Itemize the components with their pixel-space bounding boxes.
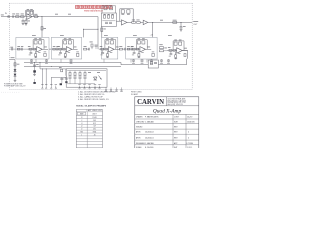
svg-text:J. PC384: J. PC384	[186, 143, 193, 145]
svg-text:20040726: 20040726	[187, 121, 195, 123]
svg-text:+15: +15	[150, 34, 153, 36]
svg-text:26-272: 26-272	[187, 117, 192, 119]
svg-text:DRAWN: DRAWN	[136, 116, 143, 119]
svg-text:MODEL: SX-AMP INT. PREAMPS: MODEL: SX-AMP INT. PREAMPS	[76, 104, 106, 107]
svg-text:Q9: Q9	[93, 126, 95, 128]
svg-text:C. MACIAS: C. MACIAS	[145, 142, 155, 145]
svg-text:3. ALL CAPACITORS IN UF: 3. ALL CAPACITORS IN UF	[78, 96, 104, 99]
svg-text:CONT: CONT	[174, 117, 179, 119]
svg-text:1. ALL DIODES 1N4148 UNLESS NO: 1. ALL DIODES 1N4148 UNLESS NOTED	[78, 90, 116, 93]
svg-text:FAX (619) 743-2178: FAX (619) 743-2178	[168, 103, 183, 106]
svg-text:26-0530-02: 26-0530-02	[145, 132, 154, 134]
svg-text:4: 4	[188, 138, 189, 140]
svg-text:ISSUED: ISSUED	[136, 127, 143, 129]
svg-text:APVD: APVD	[136, 131, 141, 134]
svg-text:REF: REF	[80, 114, 84, 116]
svg-text:C63: C63	[93, 120, 96, 122]
svg-text:D11: D11	[93, 129, 96, 131]
svg-text:CHECKED: CHECKED	[136, 121, 145, 123]
svg-text:www.radiofans.cn: www.radiofans.cn	[84, 10, 104, 13]
svg-text:SX-AMP: SX-AMP	[131, 93, 139, 96]
svg-text:CARVIN: CARVIN	[137, 99, 164, 106]
svg-text:SHT: SHT	[174, 147, 177, 148]
svg-text:R148: R148	[92, 117, 96, 119]
svg-text:RN4: RN4	[93, 132, 97, 134]
svg-text:P. MARTIN 4/6/95: P. MARTIN 4/6/95	[145, 116, 159, 119]
svg-text:4. ALL RESISTORS IN OHMS, 5%: 4. ALL RESISTORS IN OHMS, 5%	[78, 98, 109, 101]
svg-text:SCALE: SCALE	[136, 146, 142, 148]
svg-text:U12: U12	[93, 123, 96, 125]
svg-text:26-0530-01: 26-0530-01	[145, 138, 154, 140]
svg-text:J: J	[81, 134, 82, 136]
svg-text:1 OF 1: 1 OF 1	[187, 147, 192, 148]
svg-text:C. MACIAS: C. MACIAS	[145, 120, 155, 123]
svg-text:4: 4	[188, 132, 189, 134]
svg-text:E: 26-0530: E: 26-0530	[145, 147, 153, 148]
svg-text:Quad X-Amp: Quad X-Amp	[153, 109, 182, 115]
svg-text:J6: J6	[94, 134, 96, 136]
svg-text:2. ALL RESISTORS 1/4W 5%: 2. ALL RESISTORS 1/4W 5%	[78, 93, 105, 96]
svg-text:POWER AMP DWG 26-272: POWER AMP DWG 26-272	[4, 85, 25, 88]
svg-text:APVD: APVD	[136, 137, 141, 140]
